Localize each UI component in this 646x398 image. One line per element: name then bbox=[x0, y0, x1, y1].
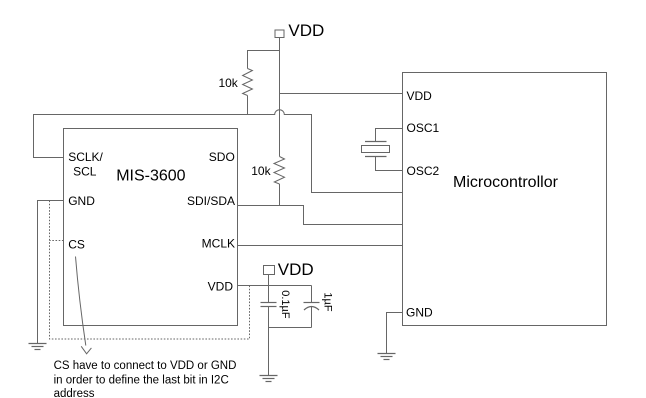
capacitor C2 1uF bbox=[304, 286, 320, 328]
svg-text:VDD: VDD bbox=[288, 21, 324, 40]
wire net SCL: MIS SCLK pin to MCU, with hop over VDD line bbox=[34, 110, 403, 193]
wire C1 bottom to ground rail bbox=[268, 307, 270, 376]
svg-text:MIS-3600: MIS-3600 bbox=[116, 168, 185, 185]
wire bottom rail between caps bbox=[269, 327, 312, 329]
annotation arrow from CS label to note bbox=[76, 257, 92, 354]
svg-text:SDO: SDO bbox=[209, 150, 235, 164]
svg-text:address: address bbox=[54, 388, 95, 398]
crystal top plate bbox=[365, 141, 387, 143]
svg-text:SCLK/: SCLK/ bbox=[68, 150, 103, 164]
svg-text:0.1µF: 0.1µF bbox=[279, 290, 291, 319]
wire branch to R1 bbox=[248, 51, 280, 69]
IC U2 Microcontrollor box bbox=[403, 73, 607, 326]
svg-text:in order to define the last bi: in order to define the last bit in I2C bbox=[54, 375, 229, 387]
svg-text:SCL: SCL bbox=[73, 165, 97, 179]
svg-text:OSC2: OSC2 bbox=[407, 164, 440, 178]
wire net GND left: MIS GND pin to ground bbox=[38, 201, 64, 344]
ground symbol (left) bbox=[29, 344, 47, 350]
svg-text:GND: GND bbox=[68, 194, 95, 208]
wire net VDD MIS pin to caps bbox=[238, 285, 312, 287]
power symbol VDD1 (top) bbox=[275, 21, 324, 40]
wire VDD to MCU VDD pin bbox=[280, 93, 403, 95]
wire VDD2 square to decoupling net bbox=[268, 275, 270, 303]
resistor R2 10k bbox=[274, 157, 285, 185]
power symbol VDD2 (bottom) bbox=[264, 260, 314, 279]
svg-text:VDD: VDD bbox=[208, 280, 234, 294]
svg-text:VDD: VDD bbox=[278, 260, 314, 279]
svg-text:OSC1: OSC1 bbox=[407, 121, 440, 135]
crystal bottom plate bbox=[365, 156, 387, 158]
IC U1 MIS-3600 box bbox=[64, 129, 238, 326]
capacitor C1 0.1uF bbox=[261, 303, 277, 307]
wire net SDA: MIS SDI/SDA pin to MCU bbox=[238, 206, 403, 225]
wire crystal to OSC2 bbox=[376, 157, 403, 171]
svg-text:GND: GND bbox=[406, 306, 433, 320]
svg-text:1µF: 1µF bbox=[322, 292, 334, 311]
svg-text:SDI/SDA: SDI/SDA bbox=[187, 194, 235, 208]
crystal body rect bbox=[362, 146, 390, 153]
svg-text:Microcontrollor: Microcontrollor bbox=[453, 174, 559, 191]
wire net CS (dashed): CS pin to VDD wire bbox=[50, 201, 250, 340]
crystal Y1 bbox=[362, 129, 403, 171]
wire net MCLK: MIS MCLK pin to MCU bbox=[238, 245, 403, 247]
wire R2 bottom to SDA line bbox=[279, 184, 281, 206]
wire R1 bottom to SCL line bbox=[247, 96, 249, 115]
svg-text:MCLK: MCLK bbox=[202, 236, 235, 250]
svg-text:10k: 10k bbox=[218, 76, 238, 90]
svg-text:CS: CS bbox=[68, 237, 85, 251]
svg-text:CS have to connect to VDD or G: CS have to connect to VDD or GND bbox=[54, 360, 237, 372]
svg-text:VDD: VDD bbox=[407, 89, 433, 103]
wire CS stub (dashed) bbox=[50, 240, 64, 242]
ground symbol (middle, below caps) bbox=[260, 376, 278, 382]
svg-text:10k: 10k bbox=[251, 164, 271, 178]
wire OSC1 to crystal bbox=[376, 129, 403, 142]
wire net VDD vertical from VDD1 down to R2 bbox=[279, 38, 281, 157]
resistor R1 10k bbox=[243, 69, 253, 96]
ground symbol (right) bbox=[378, 354, 396, 360]
wire net GND MCU pin to ground bbox=[387, 313, 403, 354]
